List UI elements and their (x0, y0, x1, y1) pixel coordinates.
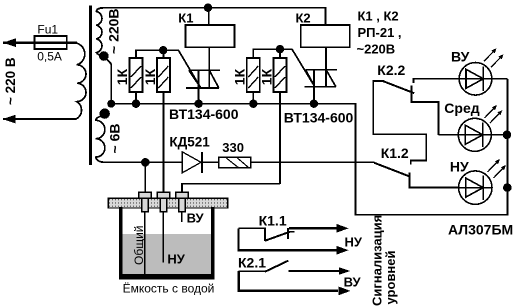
svg-text:1К: 1К (232, 68, 248, 85)
svg-text:330: 330 (222, 140, 244, 155)
wire R4 long lead down (279, 92, 281, 184)
transformer secondary ~220V winding (96, 8, 106, 56)
svg-text:~ 220В: ~ 220В (106, 8, 122, 54)
svg-text:К1: К1 (178, 10, 193, 25)
diode KD521 (182, 152, 201, 173)
wire 220V tap down to mid rail (104, 56, 111, 104)
switch K1.2 blade (374, 163, 410, 177)
LED Sred (458, 118, 491, 151)
svg-text:~220В: ~220В (357, 42, 396, 57)
resistor 330 (219, 157, 251, 168)
svg-text:КД521: КД521 (169, 134, 210, 149)
resistor R4 1K (274, 58, 287, 92)
junction dot top rail K1 (204, 4, 212, 12)
svg-text:ВТ134-600: ВТ134-600 (169, 106, 239, 122)
electrode wire NU (162, 212, 164, 263)
svg-text:К1.2: К1.2 (381, 145, 409, 161)
K1.1 bracket arrow (238, 228, 338, 250)
wire Sred LED row (438, 134, 507, 136)
top supply rail (97, 8, 326, 25)
arrow mains bottom (3, 115, 16, 124)
svg-text:К2: К2 (296, 10, 311, 25)
svg-text:Сред: Сред (444, 100, 479, 116)
wire K1 top lead (208, 8, 210, 25)
wire common electrode drop (144, 162, 146, 192)
junction dot R3 bottom (249, 100, 257, 108)
LED NU (459, 171, 492, 204)
transformer secondary ~6V winding (100, 108, 110, 118)
svg-text:1К: 1К (114, 68, 130, 85)
svg-text:РП-21 ,: РП-21 , (358, 25, 402, 40)
junction dot triac VS1 cathode (194, 100, 202, 108)
junction dot NU LED right rail (503, 183, 512, 192)
triac VS1 (208, 48, 210, 88)
resistor R2 1K (157, 58, 170, 92)
K1.1 output arrow (289, 227, 338, 230)
svg-text:НУ: НУ (345, 235, 363, 250)
tank water (123, 234, 211, 275)
svg-text:НУ: НУ (167, 252, 185, 267)
svg-text:Ёмкость с водой: Ёмкость с водой (123, 282, 215, 296)
svg-text:1К: 1К (142, 68, 158, 85)
tank walls (121, 207, 213, 276)
svg-text:АЛ307БМ: АЛ307БМ (448, 221, 513, 237)
mid rail (111, 79, 507, 215)
svg-text:0,5А: 0,5А (37, 49, 62, 63)
wire mains top line (3, 42, 77, 44)
svg-text:~ 220 В: ~ 220 В (3, 57, 18, 105)
wire R3 bottom (252, 92, 254, 104)
svg-text:К2.1: К2.1 (238, 254, 266, 270)
K2.1 bracket arrow (239, 271, 338, 291)
electrode wire VU (181, 212, 183, 222)
tank lid (108, 198, 227, 208)
transformer core (89, 5, 92, 164)
K2.1 output arrow (288, 270, 340, 272)
wire 6V rail horizontal (104, 161, 374, 163)
group2 top node wiring (253, 49, 280, 58)
electrode shaft 3 (179, 198, 186, 212)
node dot group1 (159, 46, 167, 54)
svg-text:ВТ134-600: ВТ134-600 (284, 110, 354, 126)
triac VS2 (325, 48, 327, 87)
junction dot R1 bottom (132, 100, 140, 108)
electrode cap 2 (157, 192, 169, 198)
wire K1.2 to NU LED (410, 181, 459, 188)
svg-text:уровней: уровней (383, 250, 398, 304)
resistor R3 1K (247, 58, 260, 92)
svg-text:ВУ: ВУ (344, 275, 362, 290)
electrode wire common (144, 212, 146, 275)
triac VS2 gate wire (280, 49, 315, 87)
svg-text:НУ: НУ (450, 158, 469, 174)
terminal dot 220V tap (99, 51, 109, 61)
wire K1.2 upper contact to K2.2 common (373, 81, 426, 165)
junction dot Sred LED right rail (503, 131, 512, 140)
junction dot triac VS2 cathode (310, 100, 318, 108)
K2.1 blade (265, 261, 289, 272)
wire mains bottom line (3, 118, 76, 120)
wire R2 long lead down to NU electrode (162, 92, 164, 213)
svg-text:Общий: Общий (132, 226, 146, 266)
junction dot common electrode (141, 158, 150, 167)
arrow mains top (3, 38, 16, 47)
svg-text:~ 6В: ~ 6В (107, 124, 123, 154)
triac VS1 gate wire (163, 50, 201, 88)
wire VU electrode run (182, 184, 280, 192)
group1 top node wiring (136, 50, 163, 58)
LED VU light arrows (484, 48, 497, 61)
electrode cap 1 (139, 192, 151, 198)
wire K2.2 upper contact to VU LED (414, 79, 508, 83)
svg-text:К1.1: К1.1 (259, 213, 287, 229)
wire K2.2 blade to Sred LED (411, 96, 438, 135)
switch K2.2 blade (384, 81, 415, 93)
electrode shaft 2 (160, 198, 167, 212)
svg-text:ВУ: ВУ (451, 49, 470, 65)
K1.1 blade (265, 232, 290, 241)
fuse Fu1 (34, 36, 66, 49)
wire R1 bottom (135, 92, 137, 104)
svg-text:К2.2: К2.2 (377, 62, 405, 78)
electrode shaft 1 (142, 198, 149, 212)
LED NU light arrows (488, 159, 501, 172)
transformer T1 primary winding (67, 43, 86, 119)
relay K2 coil (301, 25, 350, 47)
resistor R1 1K (130, 58, 143, 92)
LED VU (459, 63, 492, 96)
relay K1 coil (186, 25, 235, 47)
svg-text:Fu1: Fu1 (37, 22, 58, 36)
svg-text:1К: 1К (259, 68, 275, 85)
junction dot rail left (107, 100, 115, 108)
electrode cap 3 (176, 192, 188, 198)
node dot group2 (276, 45, 284, 53)
svg-text:К1 , К2: К1 , К2 (358, 9, 399, 24)
LED Sred light arrows (485, 105, 498, 118)
svg-text:ВУ: ВУ (187, 211, 205, 226)
